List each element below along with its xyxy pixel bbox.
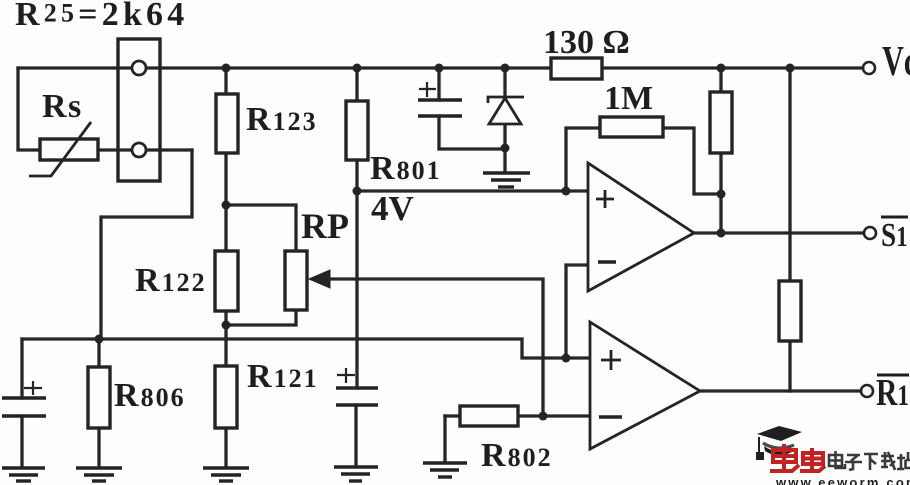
wire 4V node to opamp1 plus input bbox=[357, 189, 588, 192]
wire mid capacitor to ground bbox=[354, 405, 357, 465]
resistor 1M bbox=[600, 117, 663, 137]
svg-text:S1: S1 bbox=[881, 216, 908, 254]
wire main top rail bbox=[18, 66, 863, 69]
wire pullup2 from rail bbox=[788, 68, 791, 281]
node rail-pullup2 bbox=[786, 64, 795, 73]
wire R801 top bbox=[355, 68, 358, 101]
wire RP bottom to node bbox=[226, 310, 296, 325]
svg-text:R802: R802 bbox=[481, 437, 553, 474]
ground (zener) bbox=[483, 173, 530, 187]
node 4V bbox=[353, 187, 362, 196]
thermistor Rs body bbox=[40, 139, 98, 160]
wire pullup1 bottom to output bbox=[719, 153, 722, 233]
wire opamp1 output to S1 bbox=[694, 231, 864, 234]
resistor R122 bbox=[215, 251, 238, 311]
resistor R806 bbox=[88, 367, 110, 428]
wire R802 right to opamp2 minus bbox=[518, 414, 590, 417]
svg-text:Rs: Rs bbox=[42, 88, 83, 125]
node rail-R123 bbox=[222, 64, 231, 73]
svg-text:R806: R806 bbox=[114, 377, 186, 414]
svg-text:1M: 1M bbox=[604, 80, 653, 117]
wire R122 bottom bbox=[224, 311, 227, 325]
op-amp U1 (comparator 1) bbox=[588, 163, 694, 291]
wire left capacitor to ground bbox=[20, 416, 23, 466]
resistor 130 ohm bbox=[551, 58, 602, 79]
wire R121 to ground bbox=[224, 428, 227, 466]
ground (mid capacitor) bbox=[334, 467, 378, 481]
wire top capacitor from rail bbox=[437, 68, 440, 100]
svg-text:www.eeworm.com: www.eeworm.com bbox=[775, 475, 910, 485]
zener diode bbox=[488, 97, 524, 124]
capacitor C left bottom (electrolytic) bbox=[2, 381, 46, 416]
svg-text:R25=2k64: R25=2k64 bbox=[15, 0, 188, 33]
wire R123 top bbox=[224, 68, 227, 94]
watermark site name bbox=[829, 451, 910, 470]
potentiometer RP body bbox=[285, 251, 307, 310]
watermark graduation cap bbox=[756, 426, 802, 460]
terminal Vc bbox=[863, 62, 875, 74]
wire thermistor to box row bbox=[98, 148, 192, 151]
node opamp1 output bbox=[717, 229, 726, 238]
svg-text:R122: R122 bbox=[135, 262, 207, 299]
op-amp U2 (comparator 2) bbox=[590, 322, 700, 449]
thermistor Rs diagonal bbox=[29, 122, 91, 176]
wire pullup2 bottom to R1 line bbox=[788, 341, 791, 391]
wire R123 bottom to node bbox=[224, 153, 227, 205]
wire R122 top bbox=[224, 205, 227, 251]
resistor R802 bbox=[460, 406, 518, 426]
wire top capacitor bottom to zener node bbox=[439, 116, 505, 149]
svg-text:4V: 4V bbox=[371, 189, 414, 228]
wire RP wiper to opamp2 minus node bbox=[327, 279, 543, 416]
connector terminal upper bbox=[132, 61, 146, 75]
node rail-cap bbox=[435, 64, 444, 73]
node rail-pullup1 bbox=[717, 64, 726, 73]
resistor R123 bbox=[216, 94, 238, 153]
svg-text:R121: R121 bbox=[247, 358, 319, 395]
terminal R1 bbox=[861, 385, 873, 397]
connector terminal lower bbox=[132, 143, 146, 157]
node bottom rail R806 bbox=[95, 335, 104, 344]
ground (R806) bbox=[76, 468, 122, 481]
node R123-R122-RP bbox=[222, 201, 231, 210]
node R122-RP bottom bbox=[222, 321, 231, 330]
node opamp2 plus bbox=[562, 354, 571, 363]
ground (left capacitor) bbox=[2, 468, 45, 481]
wire 1M left leg bbox=[566, 128, 600, 191]
wire zener top bbox=[503, 68, 506, 97]
wire R122 node down to R121 bbox=[224, 325, 227, 366]
svg-text:Vc: Vc bbox=[882, 37, 910, 84]
wire 1M right leg to output node bbox=[663, 128, 721, 194]
node 1M feedback bbox=[717, 190, 726, 199]
wire opamp1 minus input bbox=[566, 265, 588, 358]
wire pullup1 top bbox=[719, 68, 722, 92]
node rail-R801 bbox=[353, 64, 362, 73]
wire 4V node down to capacitor bbox=[355, 191, 358, 388]
resistor R121 bbox=[215, 366, 237, 428]
wire node to RP top bbox=[226, 205, 296, 251]
resistor pull-up comparator1 bbox=[710, 92, 732, 153]
svg-text:R801: R801 bbox=[370, 150, 442, 187]
node opamp2 minus bbox=[539, 412, 548, 421]
potentiometer RP wiper arrow bbox=[309, 270, 330, 288]
wire R806 top bbox=[97, 339, 100, 367]
wire bottom rail bbox=[22, 339, 590, 358]
ground (R802) bbox=[423, 463, 467, 477]
svg-text:R123: R123 bbox=[246, 101, 318, 138]
node rail-zener bbox=[501, 64, 510, 73]
wire lower terminal down-left path bbox=[101, 150, 192, 339]
capacitor C mid bottom (electrolytic) bbox=[336, 368, 378, 405]
svg-text:130 Ω: 130 Ω bbox=[543, 24, 630, 61]
node cap-zener bottom bbox=[501, 144, 510, 153]
svg-text:R1: R1 bbox=[876, 373, 909, 414]
wire R802 left to ground bbox=[445, 414, 460, 417]
node opamp1 plus bbox=[562, 187, 571, 196]
wire R801 bottom to 4V node bbox=[355, 160, 358, 191]
resistor R801 bbox=[346, 101, 368, 160]
terminal S1 bbox=[864, 227, 876, 239]
watermark chongchong characters bbox=[770, 444, 825, 471]
wire left loop vertical bbox=[18, 68, 40, 150]
wire left capacitor top bbox=[20, 339, 23, 398]
ground (R121) bbox=[203, 468, 249, 481]
resistor pull-up comparator2 bbox=[779, 281, 801, 341]
capacitor C top (electrolytic) bbox=[418, 82, 462, 116]
wire R806 to ground bbox=[97, 428, 100, 466]
svg-text:RP: RP bbox=[301, 206, 349, 246]
wire zener bottom to ground bbox=[503, 124, 506, 172]
wire opamp2 output to R1 bbox=[700, 389, 861, 392]
connector block bbox=[118, 39, 160, 181]
